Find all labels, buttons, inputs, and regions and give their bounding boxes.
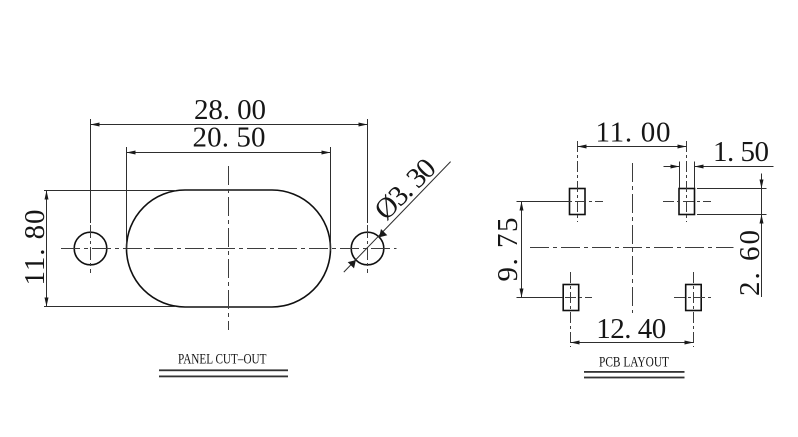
dim 2.60: [697, 174, 767, 298]
label PANEL CUT-OUT: [159, 352, 288, 378]
pad top-left: [570, 189, 586, 215]
left hole vertical centerline: [90, 225, 92, 273]
svg-text:1. 50: 1. 50: [713, 136, 769, 168]
pad bottom-right centerlines: [693, 272, 695, 347]
left mounting hole: [74, 232, 107, 265]
svg-text:PANEL CUT–OUT: PANEL CUT–OUT: [178, 352, 267, 368]
dim 11.80: [19, 191, 176, 307]
main vertical centerline pcb: [632, 163, 634, 313]
pad top-right centerlines: [686, 141, 688, 222]
svg-text:20. 50: 20. 50: [193, 121, 266, 153]
dim 12.40: [571, 313, 694, 345]
dim 9.75: [492, 202, 570, 298]
svg-text:11. 00: 11. 00: [596, 117, 671, 149]
dim 1.50: [664, 136, 774, 188]
main horizontal centerline pcb: [530, 247, 734, 249]
horizontal centerline left view: [61, 248, 397, 250]
svg-text:PCB LAYOUT: PCB LAYOUT: [599, 354, 669, 370]
dim 20.50: [127, 121, 331, 251]
pad bottom-left: [563, 285, 579, 311]
right hole vertical centerline: [367, 225, 369, 273]
pad top-right: [679, 189, 695, 215]
dim 11.00: [578, 117, 687, 149]
pad bottom-left centerlines: [570, 272, 572, 347]
svg-text:12. 40: 12. 40: [596, 313, 666, 345]
vertical centerline slot: [228, 166, 230, 330]
panel cut-out slot outline: [127, 190, 331, 307]
dim 28.00: [91, 94, 368, 223]
svg-text:11. 80: 11. 80: [19, 210, 51, 286]
label PCB LAYOUT: [584, 354, 685, 378]
pad bottom-right: [686, 285, 702, 311]
dim diameter 3.30 leader: [344, 152, 451, 272]
right mounting hole: [351, 232, 384, 265]
pad top-left centerlines: [577, 141, 579, 222]
